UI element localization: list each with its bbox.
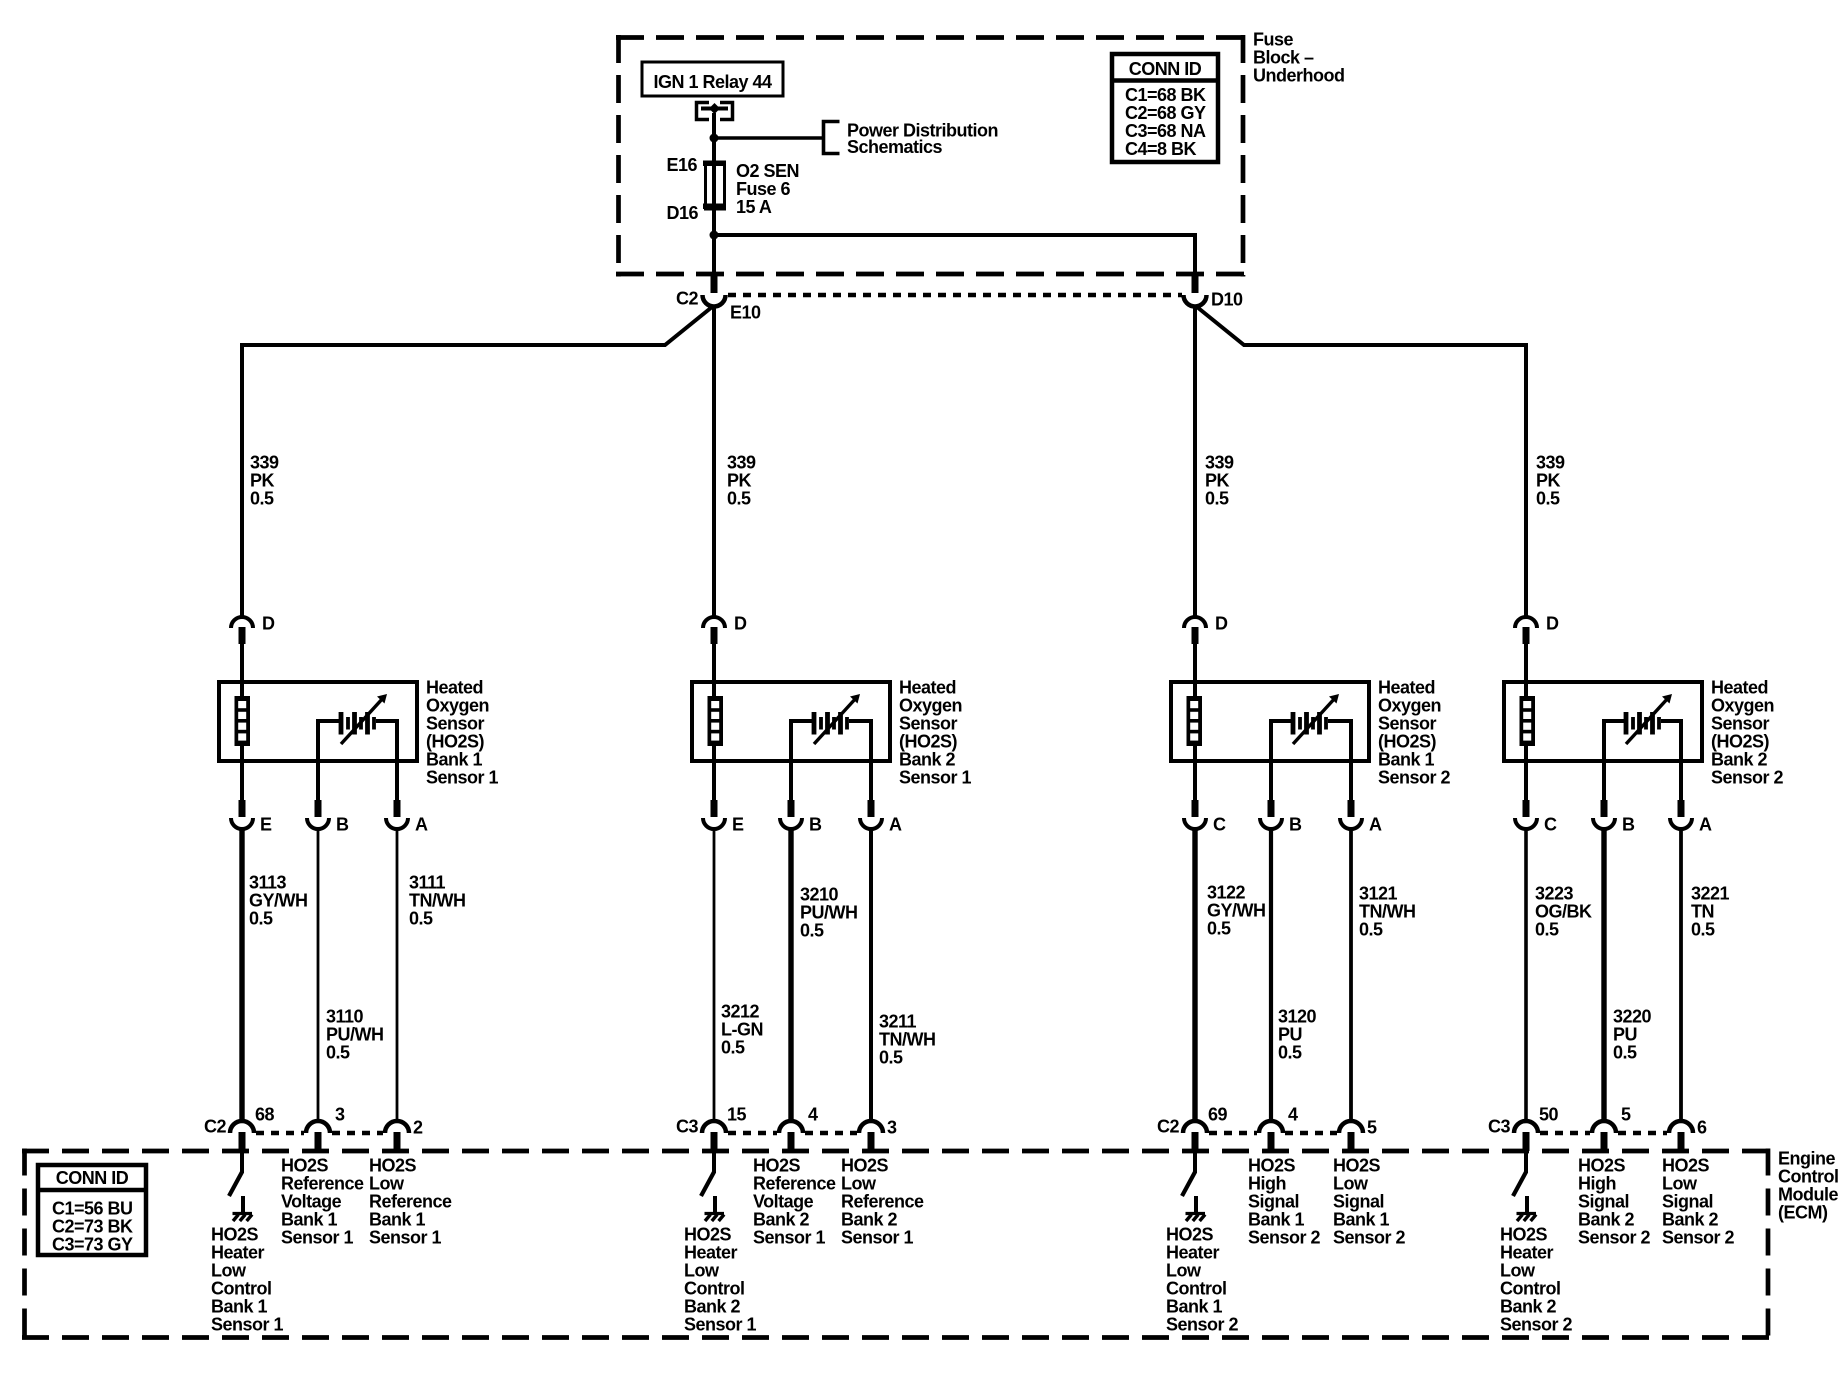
svg-text:Reference: Reference (281, 1174, 364, 1194)
svg-text:Fuse: Fuse (1253, 30, 1294, 50)
svg-text:HO2S: HO2S (841, 1156, 889, 1176)
svg-text:Sensor 2: Sensor 2 (1378, 768, 1451, 788)
svg-text:Low: Low (841, 1174, 877, 1194)
svg-text:0.5: 0.5 (409, 909, 433, 929)
svg-text:15 A: 15 A (736, 197, 772, 217)
svg-text:5: 5 (1621, 1105, 1631, 1125)
connector C3 pin 5 column 4 (1592, 1121, 1616, 1133)
svg-text:HO2S: HO2S (1500, 1225, 1548, 1245)
wire pin A down to ECM connector column 4 (1679, 829, 1683, 1121)
svg-text:Sensor: Sensor (1711, 714, 1770, 734)
svg-text:Sensor 1: Sensor 1 (426, 768, 499, 788)
svg-text:3: 3 (887, 1118, 897, 1138)
svg-text:Bank 2: Bank 2 (841, 1210, 898, 1230)
svg-text:C2: C2 (676, 289, 698, 309)
svg-text:Sensor: Sensor (899, 714, 958, 734)
HO2S sensor U2 box: Heated Oxygen Sensor Bank 2 Sensor 1 (692, 682, 890, 761)
svg-text:Sensor 1: Sensor 1 (369, 1228, 442, 1248)
svg-text:0.5: 0.5 (250, 489, 274, 509)
svg-text:Bank 2: Bank 2 (1500, 1297, 1557, 1317)
wires sensing element to pins B/A column 2 (791, 721, 812, 801)
svg-text:Bank 1: Bank 1 (426, 750, 483, 770)
svg-text:3120: 3120 (1278, 1007, 1317, 1027)
svg-text:Heated: Heated (1378, 678, 1435, 698)
svg-text:3211: 3211 (879, 1012, 917, 1032)
connector D10 female cup (1184, 295, 1207, 307)
wire pin B down to ECM connector column 3 (1269, 829, 1273, 1121)
svg-text:Bank 2: Bank 2 (1662, 1210, 1719, 1230)
svg-text:C2: C2 (204, 1117, 226, 1137)
wire pin C down to ECM connector column 4 (1524, 829, 1528, 1121)
node junction at relay output (710, 134, 719, 143)
svg-text:D16: D16 (666, 203, 698, 223)
svg-text:Low: Low (1166, 1261, 1202, 1281)
svg-text:Sensor 2: Sensor 2 (1662, 1228, 1735, 1248)
svg-text:C3=68 NA: C3=68 NA (1125, 121, 1206, 141)
svg-text:Sensor 1: Sensor 1 (841, 1228, 914, 1248)
svg-text:4: 4 (1288, 1105, 1298, 1125)
svg-text:Bank 1: Bank 1 (1378, 750, 1435, 770)
oxygen sensing element inside U2 (variable cell with arrow) (812, 712, 849, 735)
svg-text:TN/WH: TN/WH (409, 891, 465, 911)
svg-text:Oxygen: Oxygen (426, 696, 489, 716)
svg-text:TN: TN (1691, 902, 1714, 922)
svg-text:PU/WH: PU/WH (326, 1025, 384, 1045)
HO2S sensor U1 box: Heated Oxygen Sensor Bank 1 Sensor 1 (219, 682, 417, 761)
svg-text:2: 2 (413, 1118, 423, 1138)
svg-text:Reference: Reference (841, 1192, 924, 1212)
svg-text:Module: Module (1778, 1185, 1838, 1205)
wire pin B down to ECM connector column 2 (788, 829, 793, 1121)
connector pin C column 3 (1192, 800, 1199, 817)
svg-text:0.5: 0.5 (1207, 919, 1231, 939)
connector pin B column 3 (1268, 800, 1275, 817)
svg-text:Bank 2: Bank 2 (899, 750, 956, 770)
wire fuse to lower junction (712, 209, 716, 273)
connector pin B column 4 (1601, 800, 1608, 817)
ECM heater driver (switch + driver) column 4 (1524, 1151, 1528, 1173)
connector D column 3 (1184, 617, 1206, 628)
svg-text:Sensor 2: Sensor 2 (1500, 1315, 1573, 1335)
svg-text:A: A (1369, 815, 1382, 835)
svg-text:0.5: 0.5 (1691, 920, 1715, 940)
wire pin E down to ECM connector column 1 (239, 829, 244, 1121)
wire junction to D10 drop (714, 233, 1195, 237)
svg-text:Sensor 1: Sensor 1 (753, 1228, 826, 1248)
svg-text:TN/WH: TN/WH (879, 1030, 935, 1050)
svg-text:Control: Control (684, 1279, 744, 1299)
svg-text:E10: E10 (730, 303, 761, 323)
connector C2 female cup (703, 295, 726, 307)
svg-text:Oxygen: Oxygen (1711, 696, 1774, 716)
connector C2 pin 2 column 1 (385, 1121, 409, 1133)
svg-text:Bank 2: Bank 2 (684, 1297, 741, 1317)
svg-text:Schematics: Schematics (847, 137, 943, 157)
svg-text:C: C (1544, 815, 1557, 835)
svg-text:Bank 1: Bank 1 (1333, 1210, 1390, 1230)
connector C2 pin 3 column 1 (306, 1121, 330, 1133)
wires sensing element to pins B/A column 1 (318, 721, 339, 801)
svg-text:Heater: Heater (684, 1243, 738, 1263)
svg-text:Engine: Engine (1778, 1149, 1835, 1169)
heater element inside U3 (1187, 696, 1203, 746)
svg-text:GY/WH: GY/WH (1207, 901, 1266, 921)
connector pin A column 1 (394, 800, 401, 817)
svg-text:D: D (734, 614, 747, 634)
svg-text:Voltage: Voltage (753, 1192, 814, 1212)
svg-text:Sensor 2: Sensor 2 (1578, 1228, 1651, 1248)
svg-text:50: 50 (1539, 1105, 1559, 1125)
wire junction to Power Distribution bracket (714, 136, 824, 140)
CONN ID table (ECM) (38, 1165, 146, 1255)
svg-text:Heater: Heater (1500, 1243, 1554, 1263)
oxygen sensing element inside U1 (variable cell with arrow) (339, 712, 376, 735)
svg-text:A: A (889, 815, 902, 835)
svg-text:PK: PK (250, 471, 275, 491)
svg-text:HO2S: HO2S (684, 1225, 732, 1245)
svg-text:6: 6 (1697, 1118, 1707, 1138)
connector C3 pin 15 column 2 (702, 1121, 726, 1133)
connector C3 pin 4 column 2 (779, 1121, 803, 1133)
ECM heater driver (switch + driver) column 1 (240, 1151, 244, 1173)
connector pin B column 1 (315, 800, 322, 817)
svg-text:Bank 1: Bank 1 (1248, 1210, 1305, 1230)
svg-text:3220: 3220 (1613, 1007, 1652, 1027)
wire D to sensor box column 2 (712, 644, 716, 684)
svg-text:B: B (1289, 815, 1302, 835)
svg-text:HO2S: HO2S (1578, 1156, 1626, 1176)
svg-text:69: 69 (1208, 1105, 1228, 1125)
svg-text:Reference: Reference (369, 1192, 452, 1212)
wire pin B down to ECM connector column 4 (1601, 829, 1606, 1121)
svg-text:(HO2S): (HO2S) (426, 732, 485, 752)
wire pin B down to ECM connector column 1 (317, 829, 320, 1121)
svg-text:15: 15 (727, 1105, 747, 1125)
svg-text:(HO2S): (HO2S) (1711, 732, 1770, 752)
Fuse Block - Underhood dashed border (616, 35, 1246, 277)
svg-text:Underhood: Underhood (1253, 66, 1345, 86)
svg-text:Low: Low (1500, 1261, 1536, 1281)
svg-text:E: E (260, 815, 272, 835)
fuse F: O2 SEN Fuse 6 15 A (712, 162, 716, 209)
connector pin A column 3 (1348, 800, 1355, 817)
svg-text:C: C (1213, 815, 1226, 835)
svg-text:B: B (809, 815, 822, 835)
dotted harness line column 4 bottom (1540, 1131, 1590, 1136)
svg-text:5: 5 (1367, 1118, 1377, 1138)
wire D to sensor box column 3 (1193, 644, 1197, 684)
wire through heater column 4 (1524, 684, 1528, 696)
svg-text:Sensor 1: Sensor 1 (281, 1228, 354, 1248)
svg-text:Signal: Signal (1578, 1192, 1629, 1212)
svg-text:D: D (262, 614, 275, 634)
dotted harness line column 1 bottom (256, 1131, 304, 1136)
heater element inside U2 (708, 696, 724, 746)
svg-text:C2=68 GY: C2=68 GY (1125, 103, 1206, 123)
svg-text:Heater: Heater (1166, 1243, 1220, 1263)
connector C3 pin 50 column 4 (1514, 1121, 1538, 1133)
svg-text:D10: D10 (1211, 290, 1243, 310)
wire D to sensor box column 1 (240, 644, 244, 684)
svg-text:C4=8 BK: C4=8 BK (1125, 139, 1197, 159)
svg-text:GY/WH: GY/WH (249, 891, 308, 911)
svg-text:Bank 2: Bank 2 (753, 1210, 810, 1230)
svg-text:PU/WH: PU/WH (800, 903, 858, 923)
svg-text:339: 339 (1205, 453, 1234, 473)
wire relay to junction (712, 113, 716, 162)
svg-text:PK: PK (1536, 471, 1561, 491)
connector D column 4 (1515, 617, 1537, 628)
wires sensing element to pins B/A column 4 (1604, 721, 1624, 801)
svg-text:Heated: Heated (426, 678, 483, 698)
svg-text:0.5: 0.5 (800, 921, 824, 941)
wire through heater column 3 (1193, 684, 1197, 696)
svg-text:HO2S: HO2S (1248, 1156, 1296, 1176)
Power Distribution Schematics off-page bracket (824, 122, 840, 154)
svg-text:0.5: 0.5 (1278, 1043, 1302, 1063)
svg-text:Block –: Block – (1253, 48, 1314, 68)
svg-text:Control: Control (211, 1279, 271, 1299)
svg-text:HO2S: HO2S (211, 1225, 259, 1245)
svg-text:HO2S: HO2S (281, 1156, 329, 1176)
svg-text:3121: 3121 (1359, 884, 1398, 904)
svg-text:PU: PU (1613, 1025, 1637, 1045)
svg-text:C1=56 BU: C1=56 BU (52, 1199, 133, 1219)
svg-text:Low: Low (369, 1174, 405, 1194)
svg-text:Reference: Reference (753, 1174, 836, 1194)
connector pin E column 1 (239, 800, 246, 817)
svg-text:D: D (1215, 614, 1228, 634)
svg-text:Sensor 2: Sensor 2 (1166, 1315, 1239, 1335)
CONN ID table (fuse block) (1112, 54, 1218, 162)
svg-text:Bank 2: Bank 2 (1578, 1210, 1635, 1230)
wire column 2 vertical from E10 (712, 306, 716, 616)
wire branch C2 to column 1 (diagonal+horizontal+vertical) (242, 307, 712, 616)
svg-text:0.5: 0.5 (1535, 920, 1559, 940)
svg-text:3210: 3210 (800, 885, 839, 905)
connector pin C column 4 (1523, 800, 1530, 817)
svg-text:0.5: 0.5 (1359, 920, 1383, 940)
wire pin A down to ECM connector column 2 (869, 829, 873, 1121)
dotted harness line column 3 bottom (1209, 1131, 1257, 1136)
node junction below fuse (710, 231, 719, 240)
svg-text:3110: 3110 (326, 1007, 364, 1027)
svg-text:(HO2S): (HO2S) (1378, 732, 1437, 752)
svg-text:B: B (336, 815, 349, 835)
svg-text:E: E (732, 815, 744, 835)
svg-text:Low: Low (684, 1261, 720, 1281)
svg-text:High: High (1578, 1174, 1616, 1194)
svg-text:Low: Low (1333, 1174, 1369, 1194)
wire drop to D10 (1193, 233, 1197, 273)
Engine Control Module dashed border (22, 1149, 1771, 1341)
heater element inside U4 (1520, 696, 1536, 746)
svg-text:HO2S: HO2S (369, 1156, 417, 1176)
svg-text:Heated: Heated (899, 678, 956, 698)
svg-text:O2 SEN: O2 SEN (736, 161, 799, 181)
svg-text:HO2S: HO2S (1166, 1225, 1214, 1245)
connector D column 1 (231, 617, 253, 628)
svg-text:Signal: Signal (1333, 1192, 1384, 1212)
heater element inside U1 (235, 696, 251, 746)
svg-text:IGN 1 Relay 44: IGN 1 Relay 44 (653, 72, 772, 92)
ECM heater driver (switch + driver) column 3 (1193, 1151, 1197, 1173)
svg-text:3: 3 (335, 1105, 345, 1125)
svg-text:0.5: 0.5 (727, 489, 751, 509)
svg-text:C2=73 BK: C2=73 BK (52, 1217, 133, 1237)
svg-text:E16: E16 (666, 155, 697, 175)
svg-text:Heated: Heated (1711, 678, 1768, 698)
svg-text:339: 339 (727, 453, 756, 473)
svg-text:A: A (415, 815, 428, 835)
svg-text:B: B (1622, 815, 1635, 835)
oxygen sensing element inside U4 (variable cell with arrow) (1624, 712, 1661, 735)
connector pin B column 2 (788, 800, 795, 817)
wire pin A down to ECM connector column 3 (1349, 829, 1353, 1121)
svg-text:0.5: 0.5 (326, 1043, 350, 1063)
svg-text:Oxygen: Oxygen (899, 696, 962, 716)
svg-text:Control: Control (1778, 1167, 1838, 1187)
svg-text:0.5: 0.5 (721, 1038, 745, 1058)
svg-text:Sensor 1: Sensor 1 (684, 1315, 757, 1335)
svg-text:CONN ID: CONN ID (1129, 59, 1202, 79)
svg-text:3111: 3111 (409, 873, 446, 893)
svg-text:L-GN: L-GN (721, 1020, 763, 1040)
svg-text:339: 339 (250, 453, 279, 473)
svg-text:Low: Low (1662, 1174, 1698, 1194)
dotted harness line column 2 bottom (728, 1131, 777, 1136)
HO2S sensor U3 box: Heated Oxygen Sensor Bank 1 Sensor 2 (1171, 682, 1369, 761)
svg-text:OG/BK: OG/BK (1535, 902, 1592, 922)
svg-text:Heater: Heater (211, 1243, 265, 1263)
svg-text:3212: 3212 (721, 1002, 760, 1022)
relay contact symbol (IGN 1 Relay 44 contact) (697, 103, 733, 120)
svg-text:Sensor: Sensor (1378, 714, 1437, 734)
connector C3 pin 3 column 2 (859, 1121, 883, 1133)
svg-text:C3: C3 (676, 1117, 698, 1137)
svg-text:C3=73 GY: C3=73 GY (52, 1235, 133, 1255)
svg-text:Bank 1: Bank 1 (211, 1297, 268, 1317)
svg-text:Bank 1: Bank 1 (369, 1210, 426, 1230)
svg-text:C1=68 BK: C1=68 BK (1125, 85, 1206, 105)
connector D10 male stub (1192, 272, 1199, 293)
svg-text:Low: Low (211, 1261, 247, 1281)
svg-text:D: D (1546, 614, 1559, 634)
svg-text:HO2S: HO2S (753, 1156, 801, 1176)
svg-text:Control: Control (1500, 1279, 1560, 1299)
connector pin A column 4 (1678, 800, 1685, 817)
svg-text:3113: 3113 (249, 873, 287, 893)
svg-text:Bank 1: Bank 1 (1166, 1297, 1223, 1317)
wire branch D10 to column 4 (diagonal+horizontal+vertical) (1197, 307, 1526, 616)
svg-text:3221: 3221 (1691, 884, 1730, 904)
svg-text:(HO2S): (HO2S) (899, 732, 958, 752)
wire pin E down to ECM connector column 2 (713, 829, 716, 1121)
svg-text:Control: Control (1166, 1279, 1226, 1299)
svg-text:PK: PK (1205, 471, 1230, 491)
svg-text:Sensor 1: Sensor 1 (899, 768, 972, 788)
connector pin A column 2 (868, 800, 875, 817)
svg-text:3223: 3223 (1535, 884, 1574, 904)
svg-text:CONN ID: CONN ID (56, 1168, 129, 1188)
connector C2 pin 69 column 3 (1183, 1121, 1207, 1133)
ECM heater driver (switch + driver) column 2 (712, 1151, 716, 1173)
svg-text:4: 4 (808, 1105, 818, 1125)
wire column 3 vertical from D10 (1193, 306, 1197, 616)
svg-text:Sensor 1: Sensor 1 (211, 1315, 284, 1335)
svg-text:Sensor: Sensor (426, 714, 485, 734)
wires sensing element to pins B/A column 3 (1271, 721, 1291, 801)
svg-text:C2: C2 (1157, 1117, 1179, 1137)
svg-text:Fuse 6: Fuse 6 (736, 179, 791, 199)
svg-text:Voltage: Voltage (281, 1192, 342, 1212)
wire through heater column 2 (712, 684, 716, 696)
svg-text:Oxygen: Oxygen (1378, 696, 1441, 716)
svg-text:0.5: 0.5 (1613, 1043, 1637, 1063)
wire pin C down to ECM connector column 3 (1192, 829, 1197, 1121)
relay K: IGN 1 Relay 44 box (642, 62, 783, 96)
wire through heater column 1 (240, 684, 244, 696)
svg-text:68: 68 (255, 1105, 275, 1125)
svg-text:High: High (1248, 1174, 1286, 1194)
svg-text:PK: PK (727, 471, 752, 491)
HO2S sensor U4 box: Heated Oxygen Sensor Bank 2 Sensor 2 (1504, 682, 1702, 761)
svg-text:Sensor 2: Sensor 2 (1711, 768, 1784, 788)
svg-text:PU: PU (1278, 1025, 1302, 1045)
connector C2 pin 68 column 1 (230, 1121, 254, 1133)
svg-text:A: A (1699, 815, 1712, 835)
svg-text:339: 339 (1536, 453, 1565, 473)
connector C2 pin 4 column 3 (1259, 1121, 1283, 1133)
svg-text:C3: C3 (1488, 1117, 1510, 1137)
svg-text:TN/WH: TN/WH (1359, 902, 1415, 922)
wire D to sensor box column 4 (1524, 644, 1528, 684)
svg-text:Signal: Signal (1248, 1192, 1299, 1212)
svg-text:Bank 2: Bank 2 (1711, 750, 1768, 770)
svg-text:HO2S: HO2S (1333, 1156, 1381, 1176)
svg-text:Sensor 2: Sensor 2 (1248, 1228, 1321, 1248)
connector D column 2 (703, 617, 725, 628)
svg-text:0.5: 0.5 (249, 909, 273, 929)
svg-text:0.5: 0.5 (879, 1048, 903, 1068)
svg-text:0.5: 0.5 (1536, 489, 1560, 509)
svg-text:Signal: Signal (1662, 1192, 1713, 1212)
svg-text:3122: 3122 (1207, 883, 1246, 903)
connector C2 pin 5 column 3 (1339, 1121, 1363, 1133)
svg-text:HO2S: HO2S (1662, 1156, 1710, 1176)
oxygen sensing element inside U3 (variable cell with arrow) (1291, 712, 1328, 735)
svg-text:Sensor 2: Sensor 2 (1333, 1228, 1406, 1248)
svg-text:Bank 1: Bank 1 (281, 1210, 338, 1230)
connector C2 male stub (711, 272, 718, 293)
svg-text:0.5: 0.5 (1205, 489, 1229, 509)
svg-text:(ECM): (ECM) (1778, 1203, 1828, 1223)
connector pin E column 2 (711, 800, 718, 817)
harness dotted line C2 to D10 (728, 293, 1182, 298)
connector C3 pin 6 column 4 (1669, 1121, 1693, 1133)
wire pin A down to ECM connector column 1 (396, 829, 399, 1121)
